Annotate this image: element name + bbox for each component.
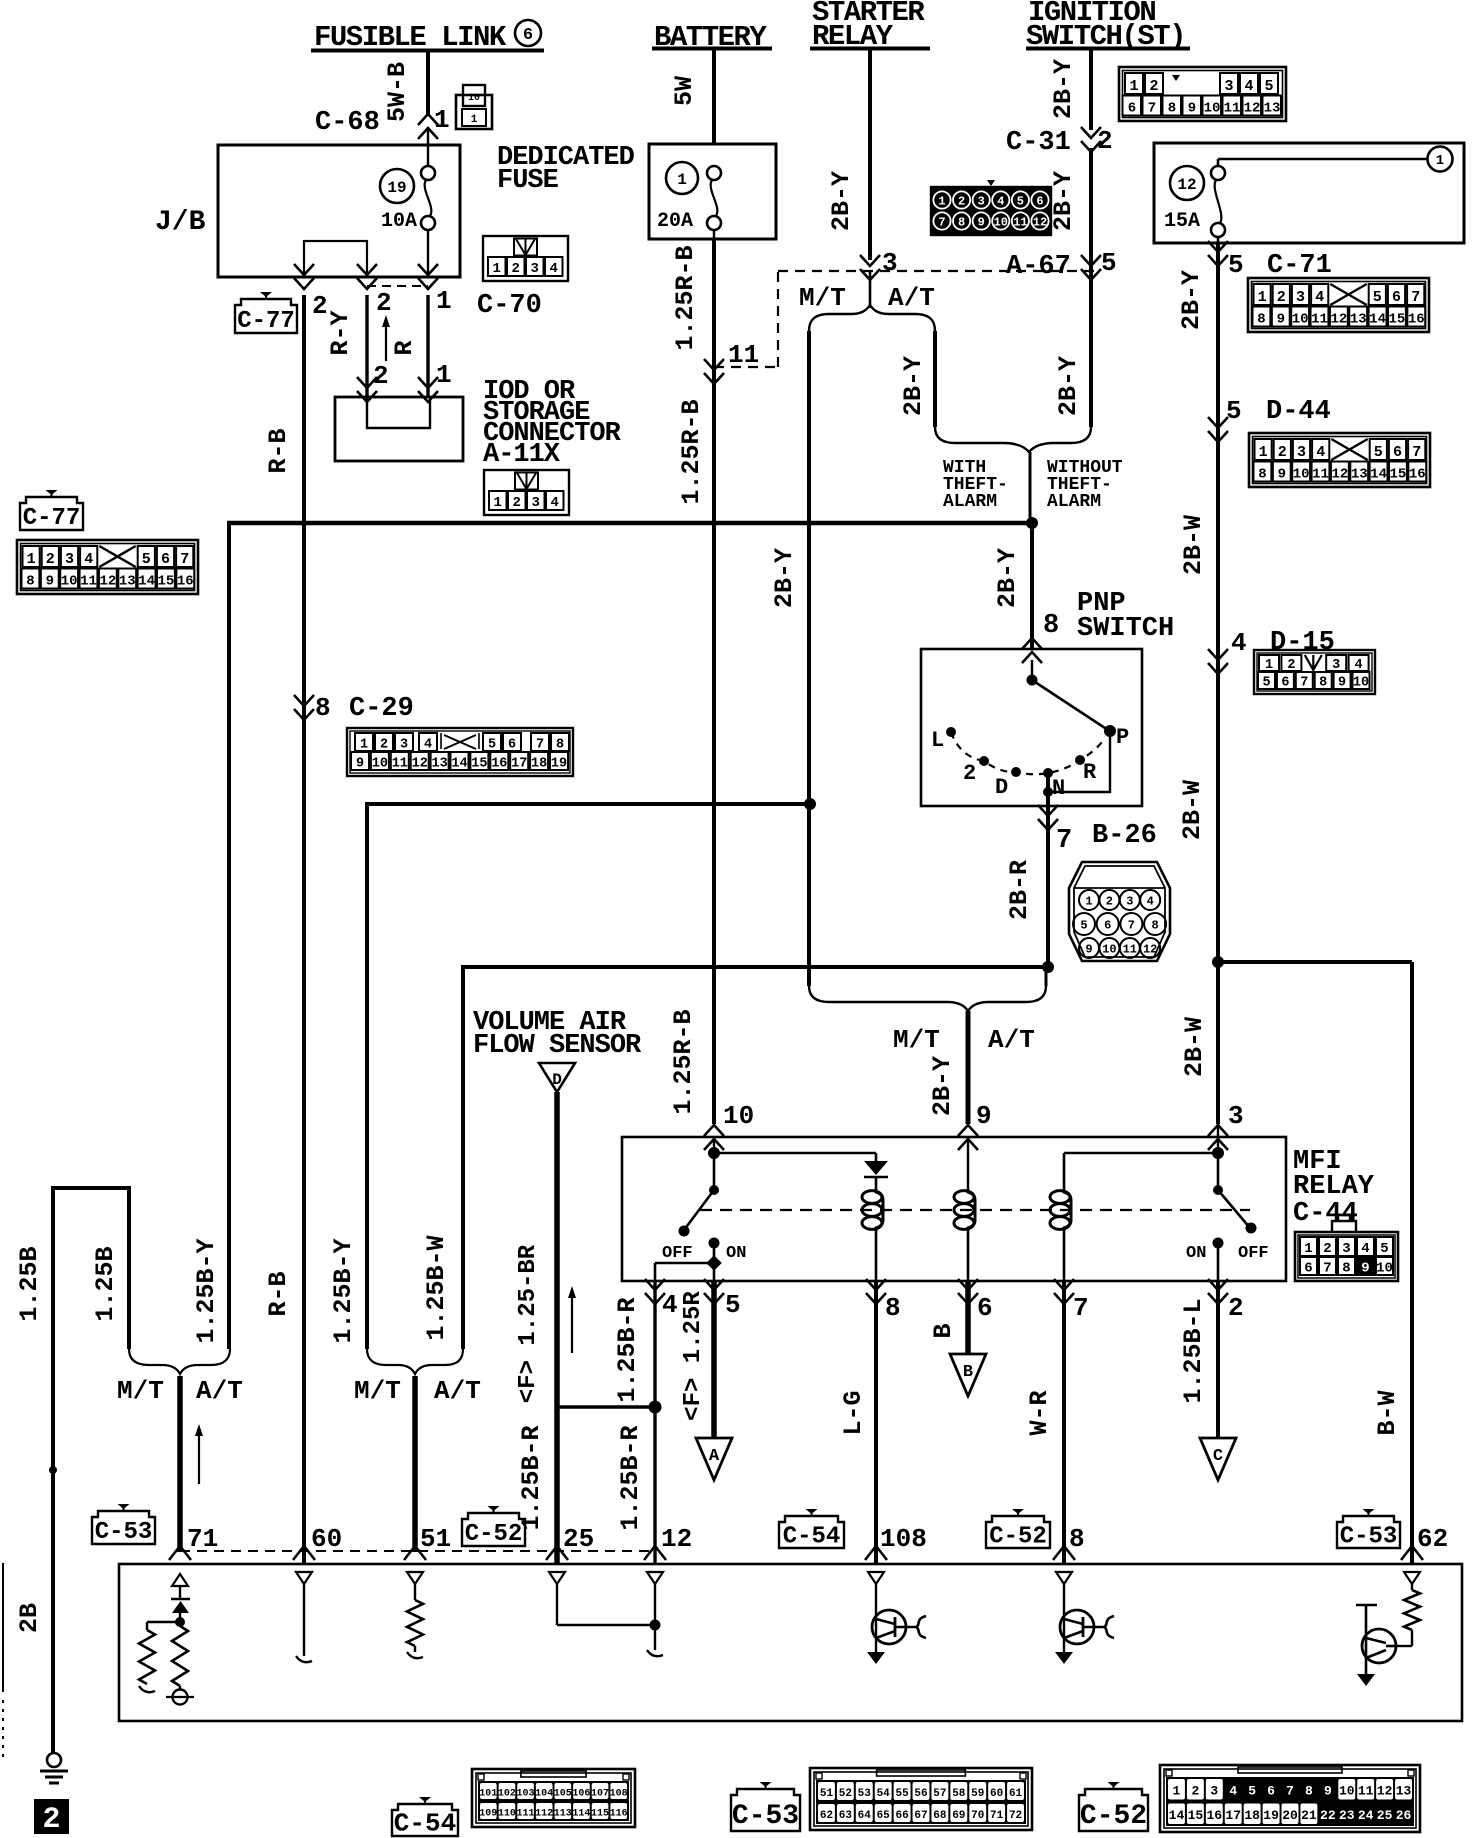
wire B-W down right side <box>1373 962 1412 1564</box>
svg-text:8: 8 <box>1168 101 1176 117</box>
svg-text:19: 19 <box>387 179 406 197</box>
svg-text:19: 19 <box>551 757 567 772</box>
svg-text:101: 101 <box>479 1788 497 1799</box>
svg-text:ON: ON <box>726 1244 746 1263</box>
svg-text:7: 7 <box>1128 919 1135 933</box>
ECU pin 62 resistor + transistor <box>1356 1572 1420 1686</box>
svg-text:105: 105 <box>554 1788 572 1799</box>
svg-text:<F> 1.25R: <F> 1.25R <box>680 1291 707 1421</box>
pin 3 entry <box>1208 1101 1244 1150</box>
svg-text:26: 26 <box>1396 1808 1412 1823</box>
svg-text:11: 11 <box>728 340 759 370</box>
svg-text:1: 1 <box>360 738 368 753</box>
svg-text:R-B: R-B <box>264 1271 293 1316</box>
svg-text:D-44: D-44 <box>1266 397 1331 427</box>
wire 1.25R-B battery <box>669 239 714 1124</box>
svg-text:72: 72 <box>1009 1810 1022 1822</box>
svg-text:L: L <box>931 728 944 753</box>
svg-text:R: R <box>390 340 419 355</box>
svg-text:10: 10 <box>1102 943 1116 957</box>
svg-text:4: 4 <box>1231 628 1247 658</box>
svg-text:R-B: R-B <box>264 428 293 473</box>
switch 2 (right) <box>1186 1153 1269 1281</box>
svg-text:5: 5 <box>1264 78 1273 95</box>
svg-text:15A: 15A <box>1164 210 1200 233</box>
svg-text:16: 16 <box>491 757 507 772</box>
svg-text:C-71: C-71 <box>1267 251 1332 281</box>
svg-text:113: 113 <box>554 1808 572 1819</box>
flag label C-54 pin108 <box>779 1509 844 1550</box>
svg-text:2B-W: 2B-W <box>1179 515 1208 575</box>
svg-text:2B-Y: 2B-Y <box>1049 59 1078 119</box>
wire R-Y <box>326 295 367 397</box>
pin 10 entry <box>704 1101 754 1153</box>
svg-text:B: B <box>963 1363 973 1382</box>
wire 2B-Y A/T branch <box>899 331 935 427</box>
wire theft-alarm to bus <box>1029 452 1032 523</box>
wire to diode <box>714 1153 876 1161</box>
connector C-54 (bottom) <box>392 1769 635 1838</box>
ECU pin 71 left resistor branch <box>139 1622 180 1692</box>
svg-text:1: 1 <box>436 360 452 390</box>
connector A-67 (black 12-pin) <box>931 180 1051 235</box>
arrow 11 <box>704 340 759 384</box>
svg-text:6: 6 <box>1281 676 1289 691</box>
svg-text:1: 1 <box>434 105 450 135</box>
bus wire 2 (1.25B-Y M/T) <box>329 798 816 1349</box>
svg-text:OFF: OFF <box>662 1244 693 1263</box>
coil3 feed from switch 2 <box>1064 1147 1224 1159</box>
svg-text:61: 61 <box>1009 1788 1023 1800</box>
svg-text:1.25B: 1.25B <box>91 1246 120 1321</box>
svg-text:8: 8 <box>1043 611 1059 641</box>
svg-text:2B-Y: 2B-Y <box>770 548 799 608</box>
junction to VAF wire <box>557 1401 662 1414</box>
svg-text:2B-Y: 2B-Y <box>827 171 856 231</box>
relay actuation dashed line <box>700 1209 1250 1211</box>
svg-text:OFF: OFF <box>1238 1244 1269 1263</box>
J/B box <box>155 145 460 277</box>
svg-text:71: 71 <box>187 1524 218 1554</box>
svg-text:2B-W: 2B-W <box>1178 780 1207 840</box>
svg-text:5: 5 <box>1017 195 1024 209</box>
svg-text:9: 9 <box>1188 101 1196 117</box>
svg-text:C-70: C-70 <box>477 291 542 321</box>
svg-text:2: 2 <box>963 761 976 786</box>
svg-text:18: 18 <box>1244 1808 1260 1823</box>
svg-text:N: N <box>1052 776 1065 801</box>
svg-text:8: 8 <box>315 693 331 723</box>
svg-text:7: 7 <box>1056 826 1072 856</box>
svg-text:L-G: L-G <box>839 1390 868 1435</box>
svg-text:C-53: C-53 <box>95 1519 153 1546</box>
connector A-11X icon <box>484 470 569 515</box>
svg-text:C-52: C-52 <box>1080 1801 1147 1832</box>
svg-text:1: 1 <box>1085 895 1092 909</box>
svg-text:103: 103 <box>517 1788 535 1799</box>
svg-text:6: 6 <box>977 1293 993 1323</box>
IOD pin labels 2 1 <box>357 360 452 402</box>
starter relay header <box>810 0 930 53</box>
ECU dashed pin line <box>180 1550 652 1552</box>
svg-text:15: 15 <box>1188 1808 1204 1823</box>
theft alarm labels <box>943 458 1123 512</box>
arrow 5 D-44 <box>1208 396 1331 442</box>
dashed link pins 2-1 (C-70) <box>367 285 428 287</box>
svg-text:2: 2 <box>1228 1293 1244 1323</box>
svg-text:J/B: J/B <box>155 207 206 238</box>
svg-text:2B-Y: 2B-Y <box>1054 356 1083 416</box>
flag label C-77 <box>235 292 297 335</box>
arrow 5 C-71 <box>1208 241 1332 281</box>
svg-text:2: 2 <box>380 738 388 753</box>
arrow 8 C-29 on R-B <box>294 693 414 724</box>
svg-text:53: 53 <box>858 1788 872 1800</box>
IOD text <box>483 377 622 470</box>
svg-text:13: 13 <box>431 757 447 772</box>
svg-text:114: 114 <box>572 1808 590 1819</box>
svg-text:2B-Y: 2B-Y <box>1049 171 1078 231</box>
svg-text:15: 15 <box>471 757 487 772</box>
svg-text:9: 9 <box>1324 1784 1332 1799</box>
svg-text:1: 1 <box>677 171 687 189</box>
svg-text:67: 67 <box>914 1810 927 1822</box>
svg-text:FUSE: FUSE <box>497 166 559 196</box>
svg-text:2B: 2B <box>15 1603 44 1633</box>
svg-text:69: 69 <box>952 1810 965 1822</box>
svg-text:10: 10 <box>1204 101 1221 117</box>
svg-text:3: 3 <box>1126 895 1133 909</box>
svg-text:2: 2 <box>1106 895 1113 909</box>
svg-text:10: 10 <box>994 216 1008 230</box>
PNP contacts <box>931 675 1129 802</box>
svg-text:3: 3 <box>1228 1101 1244 1131</box>
svg-text:B-26: B-26 <box>1092 821 1157 851</box>
svg-text:23: 23 <box>1339 1808 1355 1823</box>
svg-text:8: 8 <box>1319 676 1327 691</box>
svg-text:102: 102 <box>498 1788 516 1799</box>
svg-text:C-52: C-52 <box>989 1523 1047 1550</box>
ignition switch fuse box <box>1154 143 1464 243</box>
fuse 1 20A <box>657 162 721 239</box>
ECU input pin 71 circuit <box>166 1574 194 1705</box>
svg-text:62: 62 <box>820 1810 833 1822</box>
svg-text:5: 5 <box>1101 248 1117 278</box>
svg-text:7: 7 <box>1286 1784 1294 1799</box>
fuse 12 15A <box>1164 147 1453 244</box>
svg-text:5: 5 <box>1228 250 1244 280</box>
wire W-R pin7 <box>1025 1281 1064 1564</box>
wire 2B-Y to MFI pin 9 <box>928 1011 968 1124</box>
svg-text:3: 3 <box>978 195 985 209</box>
MFI bottom pins <box>645 1279 1244 1323</box>
triangle B <box>950 1354 986 1396</box>
svg-text:A/T: A/T <box>988 1025 1035 1055</box>
svg-text:10: 10 <box>723 1101 754 1131</box>
svg-text:1: 1 <box>1173 1784 1181 1799</box>
svg-text:R-Y: R-Y <box>326 310 355 355</box>
svg-text:2B-Y: 2B-Y <box>993 548 1022 608</box>
brace M/T A/T to MFI pin 9 <box>809 967 1046 1055</box>
svg-text:6: 6 <box>1128 101 1136 117</box>
svg-text:106: 106 <box>572 1788 590 1799</box>
svg-text:12: 12 <box>661 1524 692 1554</box>
svg-text:3: 3 <box>1210 1784 1218 1799</box>
svg-text:9: 9 <box>356 757 364 772</box>
svg-text:7: 7 <box>536 738 544 753</box>
svg-text:C-77: C-77 <box>23 505 81 532</box>
svg-text:63: 63 <box>839 1810 853 1822</box>
svg-text:6: 6 <box>1304 1261 1312 1277</box>
svg-text:B: B <box>929 1323 958 1338</box>
svg-text:A/T: A/T <box>434 1376 481 1406</box>
svg-text:A-11X: A-11X <box>483 440 561 470</box>
svg-text:55: 55 <box>895 1788 909 1800</box>
page number 2 <box>35 1800 68 1837</box>
svg-text:104: 104 <box>535 1788 553 1799</box>
svg-text:71: 71 <box>990 1810 1004 1822</box>
svg-text:14: 14 <box>1169 1808 1185 1823</box>
svg-text:116: 116 <box>610 1808 628 1819</box>
svg-text:R: R <box>1083 760 1097 785</box>
svg-text:C-54: C-54 <box>394 1808 456 1838</box>
svg-text:58: 58 <box>952 1788 966 1800</box>
svg-text:ALARM: ALARM <box>943 492 997 512</box>
svg-text:<F> 1.25-BR: <F> 1.25-BR <box>515 1244 542 1403</box>
svg-text:6: 6 <box>1267 1784 1275 1799</box>
svg-text:1: 1 <box>471 114 478 126</box>
connector C-70 icon <box>477 236 568 321</box>
svg-text:6: 6 <box>1036 195 1043 209</box>
svg-text:3: 3 <box>400 738 408 753</box>
svg-text:7: 7 <box>1323 1261 1331 1277</box>
svg-text:P: P <box>1116 725 1129 750</box>
svg-text:M/T: M/T <box>354 1376 401 1406</box>
triangle D <box>539 1063 575 1092</box>
svg-text:4: 4 <box>424 738 432 753</box>
svg-text:D: D <box>995 775 1008 800</box>
svg-text:D: D <box>552 1071 562 1089</box>
svg-text:2B-Y: 2B-Y <box>928 1056 957 1116</box>
wire 5W-B from fusible link <box>383 52 428 122</box>
svg-text:A/T: A/T <box>888 283 935 313</box>
svg-text:M/T: M/T <box>893 1025 940 1055</box>
combined wire to pin 71 <box>177 1376 183 1552</box>
svg-text:1: 1 <box>1436 153 1444 169</box>
svg-text:8: 8 <box>885 1293 901 1323</box>
svg-text:52: 52 <box>839 1788 852 1800</box>
svg-text:5: 5 <box>1080 919 1087 933</box>
svg-text:1.25B-Y: 1.25B-Y <box>192 1238 221 1343</box>
starter M/T A/T brace <box>799 271 935 331</box>
svg-text:3: 3 <box>1332 658 1340 673</box>
svg-text:7: 7 <box>1300 676 1308 691</box>
svg-text:1.25B-R: 1.25B-R <box>517 1425 546 1530</box>
svg-text:12: 12 <box>1177 176 1196 194</box>
relay coil 3 <box>1050 1153 1071 1281</box>
connector C-53 (bottom) <box>731 1768 1032 1832</box>
svg-text:5W-B: 5W-B <box>383 62 412 122</box>
volume air flow sensor label <box>473 1008 642 1061</box>
ECU pin 60 stub <box>296 1572 312 1662</box>
svg-text:9: 9 <box>976 1101 992 1131</box>
svg-text:C-77: C-77 <box>237 308 295 335</box>
connector C-44 <box>1295 1215 1398 1281</box>
svg-text:4: 4 <box>1355 658 1363 673</box>
junction to B-W branch <box>1212 956 1412 968</box>
svg-text:10: 10 <box>468 93 480 104</box>
svg-text:1: 1 <box>1129 78 1138 95</box>
svg-text:A-67: A-67 <box>1006 252 1071 282</box>
svg-text:12: 12 <box>412 757 428 772</box>
svg-text:A/T: A/T <box>196 1376 243 1406</box>
wire 1.25B-R to pin 12 <box>616 1407 655 1564</box>
connector B-26 <box>1069 862 1170 961</box>
left margin marks <box>2 1563 4 1762</box>
wire 2B-Y ignition mid <box>1049 148 1091 271</box>
svg-text:7: 7 <box>938 216 945 230</box>
hook 1.25B wires <box>15 1186 129 1753</box>
combined wire to pin 51 <box>412 1376 418 1552</box>
svg-text:60: 60 <box>311 1524 342 1554</box>
svg-text:5: 5 <box>725 1290 741 1320</box>
dashed wire 11 to A-67 <box>714 271 1097 367</box>
svg-text:4: 4 <box>1147 895 1154 909</box>
svg-text:2: 2 <box>1287 658 1295 673</box>
svg-text:17: 17 <box>511 757 527 772</box>
svg-text:C-52: C-52 <box>465 1521 523 1548</box>
svg-text:10: 10 <box>1376 1261 1393 1277</box>
svg-text:54: 54 <box>877 1788 891 1800</box>
svg-text:FLOW SENSOR: FLOW SENSOR <box>473 1031 642 1061</box>
svg-text:115: 115 <box>591 1808 609 1819</box>
svg-text:21: 21 <box>1301 1808 1317 1823</box>
svg-text:108: 108 <box>880 1524 927 1554</box>
svg-text:62: 62 <box>1417 1524 1448 1554</box>
PNP N output wire <box>1005 773 1157 967</box>
svg-text:2B-W: 2B-W <box>1180 1017 1209 1077</box>
svg-text:6: 6 <box>523 26 533 45</box>
svg-text:1: 1 <box>436 286 452 316</box>
svg-text:12: 12 <box>1033 216 1047 230</box>
svg-text:1.25B-R: 1.25B-R <box>616 1425 645 1530</box>
svg-text:C-68: C-68 <box>315 108 380 138</box>
svg-text:112: 112 <box>535 1808 553 1819</box>
VAF wire 1.25-BR <box>515 1092 557 1564</box>
brace M/T A/T (pin 51) <box>354 1349 481 1406</box>
svg-text:2: 2 <box>1191 1784 1199 1799</box>
svg-text:A: A <box>709 1447 720 1466</box>
svg-text:25: 25 <box>1377 1808 1393 1823</box>
connector D-44 <box>1249 433 1430 487</box>
svg-text:3: 3 <box>1342 1241 1350 1257</box>
svg-text:11: 11 <box>1123 943 1137 957</box>
battery header <box>652 21 772 54</box>
connector C-71 <box>1248 278 1429 332</box>
wire 2B-Y to PNP <box>993 523 1032 648</box>
wire 1.25B-Y left drop <box>192 521 229 1349</box>
svg-text:22: 22 <box>1320 1808 1336 1823</box>
theft-alarm brace <box>935 427 1091 452</box>
triangle A <box>696 1438 732 1480</box>
bus wire (C-68 to theft junction) <box>227 517 1038 529</box>
svg-text:9: 9 <box>1085 943 1092 957</box>
svg-text:2B-Y: 2B-Y <box>1177 270 1206 330</box>
svg-text:9: 9 <box>1361 1261 1369 1277</box>
connector D-15 <box>1254 650 1375 694</box>
svg-text:66: 66 <box>895 1810 908 1822</box>
direction arrow up near pin 71 <box>195 1424 203 1484</box>
svg-text:9: 9 <box>978 216 985 230</box>
flag label C-53 pin62 <box>1337 1509 1400 1550</box>
svg-text:59: 59 <box>971 1788 984 1800</box>
wire 5W from battery <box>670 50 714 145</box>
wire 1.25B-L pin2 <box>1179 1281 1218 1438</box>
svg-text:68: 68 <box>933 1810 947 1822</box>
svg-text:12: 12 <box>1244 101 1261 117</box>
svg-text:C-53: C-53 <box>1340 1523 1398 1550</box>
brace M/T A/T (pins 71) <box>117 1349 243 1406</box>
svg-text:65: 65 <box>877 1810 891 1822</box>
wire 1.25B-R pin4 <box>613 1281 655 1407</box>
direction arrow up VAF <box>568 1286 576 1353</box>
svg-text:8: 8 <box>1151 919 1158 933</box>
wire 2B-Y from starter relay <box>827 50 870 260</box>
svg-text:4: 4 <box>1244 78 1253 95</box>
svg-text:24: 24 <box>1358 1808 1374 1823</box>
arrow into J/B pin 1 (C-68) <box>418 114 438 166</box>
svg-text:5: 5 <box>1248 1784 1256 1799</box>
labels MFI RELAY C-44 <box>1293 1147 1375 1229</box>
svg-text:11: 11 <box>1013 216 1027 230</box>
connector C-52 (bottom) <box>1079 1765 1420 1832</box>
svg-text:13: 13 <box>1396 1784 1412 1799</box>
svg-text:10A: 10A <box>381 210 417 233</box>
svg-text:4: 4 <box>662 1290 678 1320</box>
wire 2B-Y right <box>1177 243 1218 427</box>
ground symbol <box>40 1753 68 1783</box>
triangle C <box>1200 1438 1236 1480</box>
svg-text:9: 9 <box>1338 676 1346 691</box>
direction arrow up between R-Y and R <box>382 315 390 361</box>
arrow 4 D-15 <box>1208 628 1335 674</box>
connector icon C-68 (1-pin) <box>456 85 492 129</box>
svg-text:2: 2 <box>42 1803 60 1837</box>
pin 4 tap <box>655 1255 722 1281</box>
svg-text:W-R: W-R <box>1025 1390 1054 1435</box>
junction mark on 2B wire <box>49 1466 57 1474</box>
svg-text:5: 5 <box>488 738 496 753</box>
label C-68 pin 1 <box>315 105 450 138</box>
ECU pin 12 stub <box>647 1572 663 1656</box>
svg-text:1: 1 <box>938 195 945 209</box>
svg-text:5: 5 <box>1380 1241 1388 1257</box>
wire R <box>390 295 428 397</box>
svg-text:5: 5 <box>1262 676 1270 691</box>
fuse 19 10A in J/B <box>380 166 435 241</box>
connector C-31 <box>1119 67 1286 121</box>
svg-text:11: 11 <box>392 757 408 772</box>
MFI relay box <box>622 1137 1286 1281</box>
svg-text:1.25R-B: 1.25R-B <box>669 1009 698 1114</box>
svg-text:10: 10 <box>372 757 388 772</box>
svg-text:C: C <box>1213 1447 1223 1466</box>
svg-text:51: 51 <box>420 1524 451 1554</box>
bus wire 3 (to PNP output) <box>422 961 1054 1349</box>
svg-text:13: 13 <box>1264 101 1281 117</box>
ECU pin 108 transistor <box>867 1572 926 1664</box>
svg-text:B-W: B-W <box>1373 1390 1402 1435</box>
